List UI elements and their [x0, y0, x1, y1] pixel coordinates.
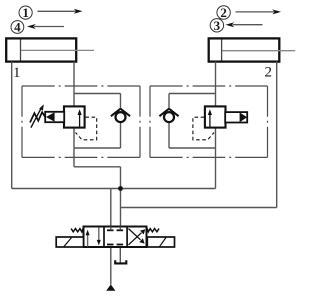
wire output to valve port B	[120, 167, 122, 230]
flow control valve 2 compensator	[205, 106, 226, 127]
wire valve port A up	[110, 189, 112, 231]
svg-text:2: 2	[220, 5, 227, 20]
wire main horizontal	[12, 188, 216, 190]
wire check2 upper	[168, 94, 170, 111]
arrow for step 1 (right)	[38, 9, 83, 14]
wire cylinder1 rod-end down through flow valve	[73, 62, 75, 167]
wire rod-line of cylinder2 horizontal	[121, 207, 277, 209]
throttle 1 adjust arrow	[31, 104, 44, 127]
wire A stub in valve	[110, 227, 112, 231]
wire check1 lower to valve port B	[120, 122, 122, 148]
node label 4 (circled)	[11, 20, 24, 35]
arrow for step 2 (right)	[236, 9, 282, 14]
node label 3 (circled)	[210, 18, 223, 33]
solenoid right	[147, 237, 174, 247]
wire cylinder1 cap-end down	[11, 62, 13, 189]
wire jog below box 1	[74, 166, 121, 168]
throttle 1 adjust zigzag	[30, 112, 45, 122]
wire loop2 top	[169, 93, 216, 95]
flow control valve 1 compensator	[64, 106, 85, 127]
enclosure box 2 (dash-dot)	[150, 86, 268, 157]
wire tank T down	[119, 245, 121, 264]
wire loop2 bottom	[169, 147, 216, 149]
svg-text:1: 1	[22, 5, 29, 20]
wire loop1 top	[74, 93, 121, 95]
valve left position arrows	[86, 227, 101, 246]
svg-text:3: 3	[214, 18, 221, 33]
wire cylinder2 rod-end down	[276, 62, 278, 208]
node label 2 (circled)	[217, 5, 230, 20]
pilot line 2 (dashed)	[193, 117, 214, 140]
valve right position crossed arrows	[129, 229, 146, 245]
pilot line 1 (dashed)	[76, 117, 97, 140]
svg-text:4: 4	[14, 20, 21, 35]
svg-text:2: 2	[265, 64, 273, 80]
spring left	[71, 228, 83, 232]
wire pump P down	[110, 245, 112, 285]
check valve 1	[111, 109, 130, 122]
enclosure box 1 (dash-dot)	[22, 86, 140, 157]
check valve 2	[159, 109, 178, 122]
wire loop1 bottom	[74, 147, 121, 149]
solenoid left	[56, 237, 83, 247]
tank symbol	[115, 260, 126, 263]
directional valve body	[84, 227, 147, 248]
node label 1 (circled)	[19, 5, 32, 20]
cylinder 1	[6, 38, 94, 61]
spring right	[147, 228, 159, 232]
wire check2 lower	[168, 122, 170, 148]
pressure source triangle	[106, 284, 115, 290]
junction dot	[118, 186, 123, 191]
svg-text:1: 1	[13, 65, 21, 81]
arrow for step 4 (left)	[27, 24, 64, 29]
wire cylinder2 cap-end down through flow valve 2	[215, 62, 217, 189]
wire B stub in valve	[119, 227, 121, 231]
arrow for step 3 (left)	[226, 22, 263, 27]
wire check1 upper	[120, 94, 122, 111]
flow control valve 1 throttle	[45, 112, 64, 122]
cylinder 2	[209, 38, 296, 61]
valve centre blocked port stubs	[107, 230, 123, 244]
flow control valve 2 throttle	[225, 112, 247, 122]
